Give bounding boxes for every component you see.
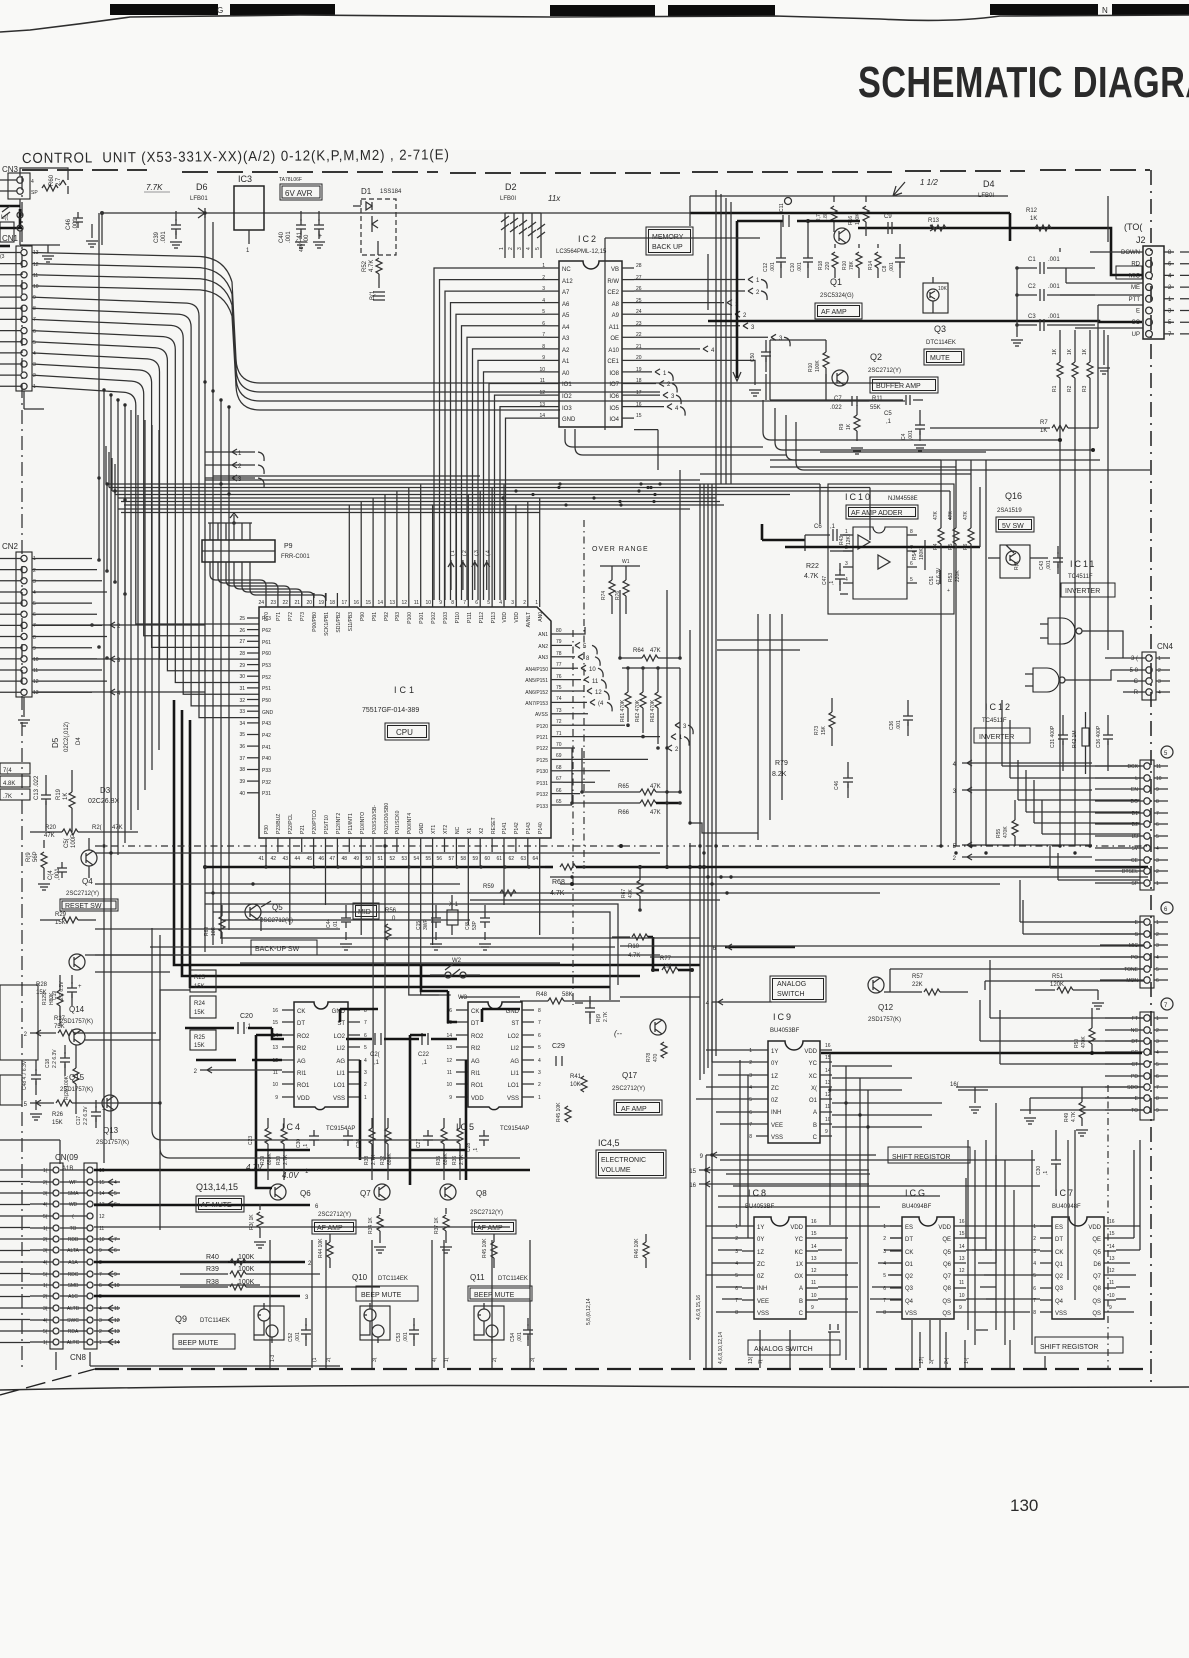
svg-text:SCHEMATIC DIAGRAM: SCHEMATIC DIAGRAM [858, 58, 1189, 107]
svg-text:C11: C11 [779, 203, 785, 212]
svg-text:130: 130 [1010, 1496, 1038, 1515]
svg-text:(3: (3 [0, 254, 5, 260]
svg-text:N: N [1102, 6, 1108, 15]
svg-text:G: G [217, 6, 223, 15]
svg-text:L((: L(( [1, 215, 8, 221]
